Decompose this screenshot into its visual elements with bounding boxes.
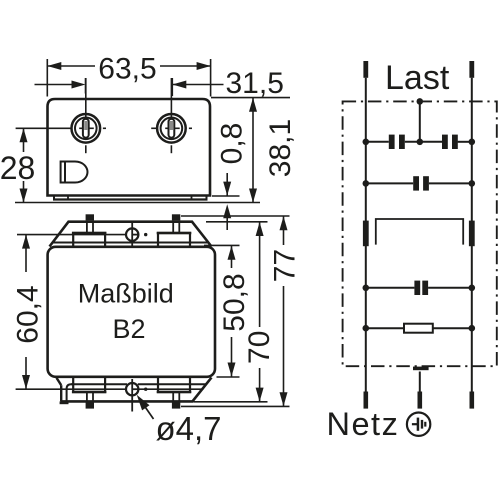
- dimension 31,5 line and arrows: [35, 81, 224, 89]
- capacitor Cx1: [413, 176, 429, 190]
- label Maßbild: [78, 279, 174, 309]
- node row1 right: [469, 139, 476, 146]
- dimension label 28: [0, 150, 35, 186]
- dimension 31,5 extension ticks: [86, 78, 173, 96]
- front view bottom flange: [61, 378, 212, 402]
- terminal screw 1 head: [72, 114, 101, 143]
- svg-text:Maßbild: Maßbild: [78, 279, 174, 309]
- D-shaped marking on housing: [61, 161, 88, 184]
- dimension 77 line and arrows: [269, 216, 298, 406]
- wire load left: [365, 78, 367, 392]
- node center row1: [417, 139, 424, 146]
- mounting hole leader arrow: [137, 395, 154, 419]
- top pin right: [172, 214, 180, 232]
- svg-text:38,1: 38,1: [264, 119, 297, 177]
- top view filter housing outline: [48, 99, 211, 196]
- terminal mains earth: [418, 392, 423, 409]
- dimension label ø4,7: [156, 410, 222, 447]
- top terminal block left: [72, 233, 107, 247]
- svg-text:ø4,7: ø4,7: [156, 410, 222, 447]
- front view top mounting flange: [50, 222, 212, 247]
- top terminal centerline: [17, 234, 126, 236]
- top view base plate edge: [53, 196, 208, 200]
- bottom flange plate top edge: [71, 383, 206, 385]
- terminal load L: [363, 61, 368, 78]
- dimension label 50,8: [218, 273, 251, 331]
- screw 1 centerlines: [16, 78, 106, 153]
- dimension 28 extension line bottom: [15, 202, 260, 204]
- dimension 0,8 arrows: [223, 173, 231, 230]
- capacitor Cy2: [442, 135, 458, 149]
- svg-text:63,5: 63,5: [98, 52, 156, 85]
- bottom terminal block right: [157, 378, 192, 393]
- wire row 3: [366, 287, 472, 289]
- case ground tab: [413, 367, 429, 371]
- wire load right: [471, 78, 473, 392]
- choke core coupling bracket: [376, 219, 463, 245]
- top flange plate bottom edge: [53, 242, 208, 244]
- wire center tap to case: [419, 101, 421, 141]
- bottom pin right: [172, 392, 180, 409]
- dimension 60,4 line and arrows: [11, 235, 41, 389]
- capacitor Cy1: [389, 135, 405, 149]
- wire row 1: [366, 141, 472, 143]
- bottom terminal centerline: [16, 388, 204, 390]
- dimension label 77: [269, 249, 302, 282]
- filter enclosure dash-dot border: [343, 101, 497, 366]
- dimension label 60,4: [11, 285, 44, 343]
- dimension 63,5 extension lines: [47, 59, 210, 97]
- dimension label 70: [243, 331, 276, 364]
- choke winding left: [363, 221, 369, 247]
- wire ground tap: [419, 372, 421, 392]
- svg-text:77: 77: [269, 249, 302, 282]
- svg-text:Netz: Netz: [327, 406, 400, 442]
- bottom pin left: [86, 392, 94, 409]
- node row4 right: [469, 325, 476, 332]
- terminal load N: [469, 61, 474, 78]
- capacitor Cx2: [414, 281, 428, 295]
- screw 2 centerlines: [151, 78, 192, 153]
- wire row 4: [366, 327, 472, 329]
- svg-text:Last: Last: [385, 59, 450, 97]
- svg-text:60,4: 60,4: [11, 285, 44, 343]
- dimension 63,5 line and arrows: [47, 62, 210, 70]
- dimension 38,1 line and arrows: [249, 98, 257, 203]
- node row3 left: [363, 285, 370, 292]
- terminal mains left: [364, 392, 369, 409]
- bottom terminal block left: [72, 378, 107, 393]
- dimension label 31,5: [226, 67, 284, 100]
- dimension 0,8 extension line: [212, 195, 240, 197]
- label Last: [385, 59, 450, 97]
- choke winding right: [469, 221, 475, 247]
- top pin left: [86, 214, 94, 232]
- dimension 50,8 line and arrows: [217, 246, 246, 377]
- dimension label 63,5: [98, 52, 156, 85]
- label B2: [112, 314, 145, 344]
- svg-text:0,8: 0,8: [216, 123, 249, 165]
- node row1 left: [363, 139, 370, 146]
- resistor R discharge: [404, 324, 433, 333]
- bottom mounting hole: [126, 379, 147, 412]
- node row2 right: [469, 180, 476, 187]
- dimension 77 extension lines: [181, 216, 290, 406]
- svg-text:28: 28: [0, 150, 35, 186]
- dimension label 0,8: [216, 123, 249, 165]
- svg-text:31,5: 31,5: [226, 67, 284, 100]
- svg-text:50,8: 50,8: [218, 273, 251, 331]
- bottom left bracket hook: [57, 378, 74, 403]
- node row2 left: [363, 180, 370, 187]
- label Netz: [327, 406, 400, 442]
- dimension 28 line and arrows: [0, 128, 35, 202]
- terminal screw 2 head: [157, 114, 186, 143]
- svg-text:70: 70: [243, 331, 276, 364]
- terminal mains right: [470, 392, 475, 409]
- protective earth symbol: [407, 413, 430, 436]
- node row4 left: [363, 325, 370, 332]
- dimension 70 line and arrows: [245, 222, 274, 402]
- dimension 50,8 extension lines: [204, 245, 240, 377]
- wire row 2: [366, 182, 472, 184]
- node case tap: [417, 98, 424, 105]
- dimension 38,1 extension line top: [211, 97, 290, 99]
- dimension label 38,1: [264, 119, 297, 177]
- top terminal block right: [157, 233, 192, 247]
- node row3 right: [469, 285, 476, 292]
- svg-text:B2: B2: [112, 314, 145, 344]
- front view filter body outline: [48, 247, 215, 377]
- top mounting hole: [126, 223, 147, 247]
- dimension 70 extension lines: [194, 222, 268, 402]
